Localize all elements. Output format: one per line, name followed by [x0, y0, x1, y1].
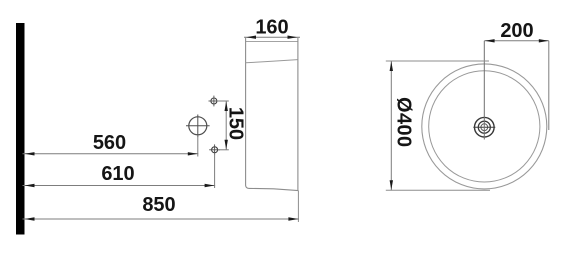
svg-text:Ø400: Ø400 [392, 97, 414, 148]
svg-text:850: 850 [142, 194, 175, 216]
svg-text:150: 150 [225, 107, 247, 140]
svg-text:560: 560 [93, 132, 126, 154]
svg-text:160: 160 [255, 17, 288, 39]
svg-text:200: 200 [500, 20, 533, 42]
svg-text:610: 610 [101, 163, 134, 185]
